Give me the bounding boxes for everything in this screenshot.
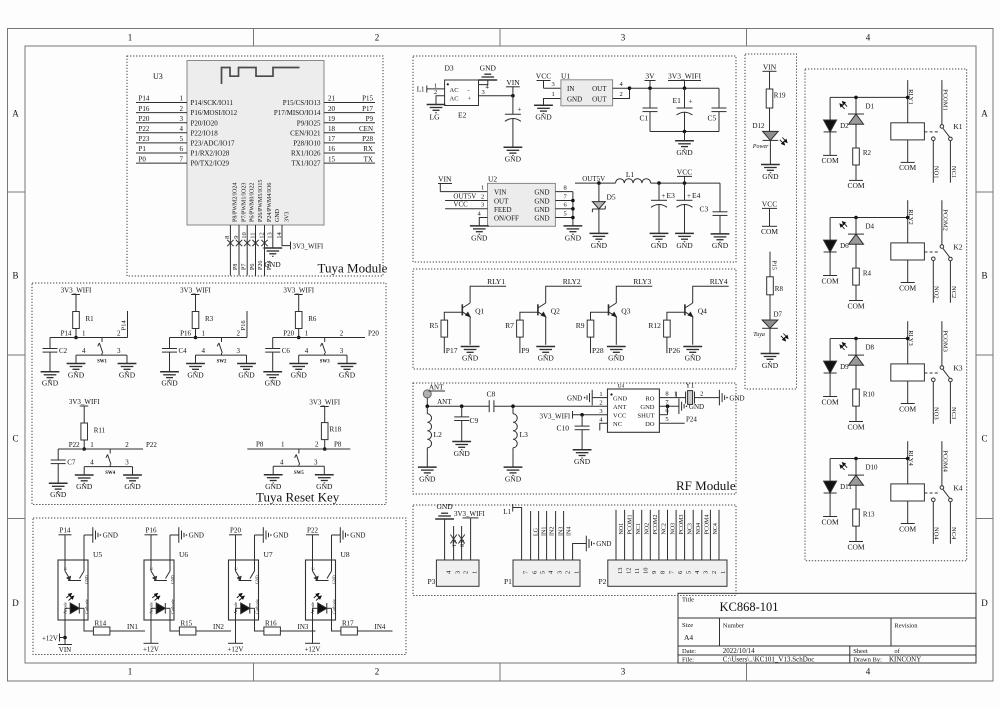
- svg-text:GND: GND: [567, 394, 582, 402]
- svg-text:NC2: NC2: [662, 523, 668, 534]
- svg-text:GND: GND: [462, 354, 479, 363]
- svg-text:NO3: NO3: [933, 407, 940, 420]
- resistor R5: [441, 320, 448, 337]
- relay coil K4: [891, 484, 925, 501]
- svg-text:D10: D10: [866, 464, 879, 472]
- svg-text:R18: R18: [330, 426, 342, 434]
- svg-text:U3: U3: [153, 72, 163, 81]
- svg-text:P16: P16: [146, 527, 157, 535]
- svg-text:GND: GND: [187, 371, 204, 380]
- svg-text:GND: GND: [613, 395, 627, 402]
- wire R11 to node P22: [83, 440, 85, 449]
- ground E4: [675, 233, 694, 241]
- svg-text:Y1: Y1: [685, 381, 694, 390]
- wire U5 cathode to R14: [84, 620, 93, 631]
- Tuya Reset Key section dashed box: [32, 283, 386, 505]
- net label COM under coil K4: [901, 523, 915, 525]
- svg-text:OUT: OUT: [494, 197, 509, 205]
- wire collector of Q2 to RLY2: [546, 286, 582, 303]
- wire U7 anode to +12V: [235, 620, 237, 643]
- net label VIN: [58, 644, 72, 646]
- svg-text:P14: P14: [139, 95, 150, 103]
- U7 LED light arrows: [237, 594, 244, 601]
- svg-text:ANT: ANT: [613, 404, 626, 411]
- svg-text:P1/RX2/IO28: P1/RX2/IO28: [191, 150, 230, 158]
- switch K2 common contact: [940, 245, 944, 249]
- wire SW4 bottom contacts: [84, 466, 132, 468]
- svg-text:1: 1: [128, 33, 133, 43]
- svg-text:GND: GND: [255, 575, 260, 584]
- wire U3 left pin 3 net P20: [136, 122, 187, 124]
- wire U3 left pin 5 net P23: [136, 142, 187, 144]
- ground 3V rail: [675, 141, 694, 149]
- crystal Y1: [686, 391, 695, 405]
- wire P1 pin4 net IN2: [546, 511, 548, 560]
- svg-text:NC4: NC4: [950, 527, 957, 540]
- net label COM below VCC: [762, 225, 777, 227]
- junction D1 rail: [854, 96, 858, 100]
- wire rail to C9: [461, 406, 463, 417]
- U2 right pin numbers 8 7 6 5: [564, 184, 568, 217]
- svg-text:+12V: +12V: [42, 634, 58, 642]
- svg-text:GND: GND: [275, 208, 281, 222]
- svg-text:PCOM2: PCOM2: [653, 514, 659, 534]
- wire rail to diode D9: [829, 339, 831, 362]
- svg-text:C: C: [981, 434, 987, 444]
- svg-text:SW4: SW4: [105, 471, 115, 476]
- svg-text:GND: GND: [591, 241, 608, 250]
- junction E1: [683, 86, 687, 90]
- svg-text:P14: P14: [121, 320, 128, 331]
- wire P3 pin4 to GND: [444, 519, 446, 560]
- wire D11 to COM: [829, 493, 831, 516]
- svg-text:GND: GND: [291, 371, 308, 380]
- svg-text:E1: E1: [673, 96, 682, 105]
- svg-text:L3: L3: [520, 430, 529, 439]
- wire D6 to COM: [829, 252, 831, 275]
- svg-text:KINCONY: KINCONY: [889, 656, 921, 664]
- wire R19 to D12: [769, 108, 771, 131]
- svg-text:P20: P20: [368, 330, 379, 338]
- connector P2 body: [608, 560, 727, 586]
- U1 pin names: [567, 85, 607, 103]
- optocoupler U6 body: [144, 560, 174, 620]
- svg-text:IN: IN: [567, 85, 574, 93]
- svg-text:Number: Number: [723, 623, 745, 630]
- svg-text:OUT5V: OUT5V: [453, 192, 476, 200]
- svg-text:P23/ADC/IO17: P23/ADC/IO17: [191, 140, 235, 148]
- ground C3: [711, 234, 730, 242]
- svg-text:+: +: [468, 96, 472, 103]
- svg-text:2: 2: [375, 667, 380, 677]
- wire node to capacitor C4: [169, 338, 171, 349]
- svg-text:GND: GND: [189, 532, 204, 540]
- wire U3 right pin 15 net TX: [324, 162, 375, 164]
- svg-text:U6: U6: [179, 550, 188, 559]
- capacitor C1: [643, 108, 658, 112]
- svg-text:R5: R5: [430, 321, 439, 330]
- wire rail to L3: [512, 406, 514, 414]
- svg-text:P6: P6: [250, 264, 256, 270]
- power port GND at P3: [435, 513, 454, 519]
- switch K4 common contact: [940, 486, 944, 490]
- wire P2 pin 4: [692, 510, 694, 560]
- svg-text:L1: L1: [626, 170, 635, 179]
- svg-text:-: -: [468, 87, 470, 94]
- wire U3 right pin 16 net RX: [324, 152, 375, 154]
- svg-text:Tuya: Tuya: [753, 332, 765, 338]
- svg-text:P26/PWM5/IO15: P26/PWM5/IO15: [258, 180, 264, 222]
- svg-text:R11: R11: [94, 427, 106, 435]
- svg-text:COM: COM: [822, 276, 839, 285]
- svg-text:RF Module: RF Module: [676, 478, 736, 493]
- wire U8 top-right pin to GND: [332, 535, 341, 560]
- svg-text:Sheet: Sheet: [853, 648, 868, 655]
- junction coil K2 rail: [906, 216, 910, 220]
- ground SW1 pin3: [118, 364, 137, 372]
- wire R15 to IN2: [196, 630, 231, 632]
- wire U6 anode to +12V: [150, 620, 152, 643]
- svg-text:GND: GND: [534, 189, 549, 197]
- dashed actuator link K2: [924, 251, 940, 253]
- svg-text:GND: GND: [50, 490, 67, 499]
- switch SW3 blade: [320, 338, 325, 356]
- svg-text:3V3_WIFI: 3V3_WIFI: [293, 242, 324, 250]
- svg-text:P20/IO20: P20/IO20: [191, 119, 219, 127]
- svg-text:Tuya Module: Tuya Module: [318, 261, 388, 276]
- net label COM under D9: [823, 396, 837, 398]
- svg-text:P16: P16: [139, 105, 150, 113]
- svg-text:GND: GND: [574, 457, 591, 466]
- svg-text:GND: GND: [238, 371, 255, 380]
- wire 3V rail: [630, 87, 720, 89]
- svg-text:R1: R1: [86, 315, 95, 323]
- svg-text:3: 3: [237, 347, 241, 355]
- svg-text:P8: P8: [334, 441, 342, 449]
- LED D1: [848, 114, 864, 124]
- transistor Q2: [538, 303, 546, 345]
- svg-text:3: 3: [556, 571, 563, 574]
- svg-text:PCOM1: PCOM1: [627, 514, 633, 534]
- svg-text:1: 1: [720, 571, 727, 574]
- regulator U1 body: [561, 80, 613, 106]
- wire Y1 pin1 tick: [675, 392, 677, 398]
- svg-text:NC1: NC1: [950, 166, 957, 178]
- wire U4 pin5 to P24: [659, 422, 684, 424]
- dashed actuator link K3: [924, 372, 940, 374]
- D10 light arrows: [840, 463, 847, 470]
- wire D3 pin2 to LG ground: [436, 96, 445, 105]
- antenna ANT terminal: [423, 390, 431, 398]
- switch K1 NO contact: [932, 137, 936, 141]
- power port +12V at U6: [144, 642, 159, 644]
- power port GND at U4 pin7: [679, 398, 684, 414]
- wire VCC to U1 pin3: [544, 87, 561, 89]
- wire net VCC to U2 pin3: [445, 208, 487, 210]
- junction VIN node: [511, 94, 515, 98]
- svg-text:3V3_WIFI: 3V3_WIFI: [454, 510, 485, 518]
- svg-text:4: 4: [305, 347, 309, 355]
- resistor R2: [853, 148, 860, 165]
- wire R4 to COM: [855, 285, 857, 300]
- capacitor E1: [677, 108, 693, 115]
- svg-text:NO2: NO2: [645, 523, 651, 535]
- wire P2 pin 5: [684, 510, 686, 560]
- transistor Q4: [685, 303, 693, 345]
- svg-text:P17/MISO/IO14: P17/MISO/IO14: [274, 109, 321, 117]
- wire 3V3_WIFI to R6: [298, 295, 300, 312]
- ground C6: [263, 372, 282, 380]
- wire P2 pin 10: [641, 510, 643, 560]
- svg-text:P8: P8: [233, 264, 239, 270]
- svg-text:U8: U8: [341, 550, 350, 559]
- wire D8 to R10: [855, 365, 857, 389]
- wire U3 bottom pin 8 net P8: [229, 225, 231, 276]
- svg-text:1: 1: [305, 330, 309, 338]
- switch SW2 blade: [217, 338, 222, 356]
- ground C4: [160, 372, 179, 380]
- wire R16 to IN3: [280, 630, 315, 632]
- wire P22 to U8 pin top-left: [312, 535, 314, 560]
- svg-text:RLY2: RLY2: [563, 277, 581, 286]
- wire bottom rail to ground: [684, 132, 686, 141]
- wire C10 to ground: [581, 430, 583, 450]
- svg-text:GND: GND: [273, 532, 288, 540]
- wire SW4 pin3 to ground: [132, 467, 134, 475]
- svg-text:2: 2: [125, 441, 129, 449]
- bridge rectifier D3 body: [445, 80, 479, 106]
- title block frame: [678, 593, 976, 663]
- wire P2 pin 6: [675, 510, 677, 560]
- wire SW1 bottom contacts: [76, 354, 127, 356]
- wire U5 anode to +12V junction: [64, 620, 66, 644]
- svg-text:K2: K2: [953, 242, 962, 251]
- svg-text:VCC: VCC: [677, 167, 692, 176]
- svg-text:2: 2: [462, 571, 469, 574]
- diode D6: [824, 240, 837, 252]
- wire riser to rotated label P16: [246, 311, 248, 338]
- tuya module U3 body: [187, 61, 324, 226]
- svg-text:3V3_WIFI: 3V3_WIFI: [180, 287, 211, 295]
- svg-text:OUT5V: OUT5V: [582, 175, 605, 183]
- P3 pin numbers: [445, 570, 478, 574]
- U8 LED light arrows: [314, 594, 321, 601]
- svg-text:SHUT: SHUT: [638, 412, 655, 419]
- wire P2 pin 1: [718, 510, 720, 560]
- wire C7 to ground: [57, 464, 59, 484]
- U5 phototransistor: [65, 560, 84, 581]
- wire Y1 pin2 to GND port: [695, 397, 720, 399]
- net label COM under coil K3: [901, 403, 915, 405]
- svg-text:C: C: [12, 434, 18, 444]
- svg-text:D: D: [981, 598, 988, 608]
- power port GND at P1: [586, 536, 591, 552]
- power port +12V at U8: [305, 642, 320, 644]
- svg-text:GND: GND: [505, 155, 522, 164]
- resistor R9: [587, 320, 594, 337]
- svg-text:GND: GND: [534, 215, 549, 223]
- junction L3: [511, 404, 515, 408]
- svg-text:3: 3: [621, 33, 626, 43]
- wire 3V3_WIFI to R3: [195, 295, 197, 312]
- ground C2: [41, 372, 60, 380]
- svg-text:E3: E3: [667, 191, 676, 200]
- svg-text:SW3: SW3: [320, 360, 330, 365]
- svg-text:R17: R17: [342, 620, 354, 628]
- svg-text:R13: R13: [863, 510, 875, 518]
- svg-text:Q2: Q2: [551, 307, 560, 316]
- svg-text:10: 10: [643, 568, 650, 575]
- D3 AC- labels: [450, 87, 472, 103]
- wire U3 right pin 18 net CEN: [324, 132, 375, 134]
- svg-text:RX: RX: [363, 145, 373, 153]
- svg-text:20: 20: [328, 105, 336, 113]
- svg-text:Anode: Anode: [233, 602, 238, 614]
- svg-text:18: 18: [328, 125, 336, 133]
- svg-text:LG: LG: [430, 113, 441, 122]
- svg-text:C5: C5: [708, 114, 717, 123]
- wire C1 to bottom rail: [649, 112, 651, 132]
- svg-text:L2: L2: [434, 430, 443, 439]
- switch K3 NO contact: [932, 378, 936, 382]
- svg-text:File:: File:: [682, 657, 694, 664]
- svg-text:C:\Users\..\KC101_V13.SchDoc: C:\Users\..\KC101_V13.SchDoc: [723, 656, 815, 664]
- ground emitter of Q4: [683, 347, 702, 355]
- svg-text:A4: A4: [684, 633, 693, 642]
- transistor Q1: [462, 303, 470, 345]
- svg-text:3V3_WIFI: 3V3_WIFI: [283, 287, 314, 295]
- svg-text:P16: P16: [240, 320, 247, 331]
- D3 pin1 dot: [447, 83, 449, 85]
- svg-text:4: 4: [866, 33, 871, 43]
- svg-text:D8: D8: [866, 344, 875, 352]
- wire rail to LED D1: [855, 97, 857, 114]
- junction C9: [460, 404, 464, 408]
- svg-text:GND: GND: [712, 241, 729, 250]
- net label COM under D11: [823, 516, 837, 518]
- switch K1 NC contact: [949, 137, 953, 141]
- junction coil K1 rail: [906, 96, 910, 100]
- svg-text:P26: P26: [258, 261, 264, 270]
- svg-text:3V3_WIFI: 3V3_WIFI: [668, 72, 701, 81]
- svg-text:NO3: NO3: [670, 523, 676, 535]
- wire SW4 pin4 to ground: [83, 467, 85, 475]
- svg-text:VIN: VIN: [506, 78, 520, 87]
- svg-text:P14: P14: [61, 330, 72, 338]
- resistor R3: [192, 312, 199, 329]
- svg-text:D3: D3: [445, 64, 454, 73]
- wire L1 to D3 pin1: [427, 88, 445, 90]
- ground SW2 pin3: [237, 364, 256, 372]
- wire node P22 horizontal: [58, 448, 143, 450]
- svg-text:17: 17: [328, 135, 336, 143]
- junction coil K3 rail: [906, 337, 910, 341]
- wire base of Q4 to R12: [667, 312, 685, 320]
- svg-text:Power: Power: [752, 144, 769, 150]
- power port GND at Y1: [719, 390, 724, 406]
- svg-text:NC2: NC2: [950, 286, 957, 298]
- svg-text:PCOM2: PCOM2: [941, 209, 948, 231]
- wire U4 pin4 no connect: [600, 423, 608, 430]
- wire NO1: [932, 141, 934, 183]
- D12 light arrows: [780, 138, 787, 145]
- svg-text:C10: C10: [557, 423, 570, 432]
- svg-text:P20: P20: [283, 330, 294, 338]
- svg-text:R4: R4: [863, 269, 872, 277]
- switch K3 blade: [943, 369, 950, 378]
- U2 pin names: [494, 189, 550, 223]
- switch K1 blade: [943, 128, 950, 137]
- svg-text:9: 9: [651, 571, 658, 574]
- wire E1 to bottom rail: [684, 112, 686, 132]
- svg-text:C1: C1: [640, 114, 649, 123]
- wire P1 pin5 net IN1: [538, 511, 540, 560]
- wire U3 right pin 21 net P15: [324, 102, 375, 104]
- svg-text:P22/IO18: P22/IO18: [191, 129, 219, 137]
- wire P1 pin3 net IN3: [555, 511, 557, 560]
- input optocoupler section dashed box: [33, 518, 406, 655]
- wire ANT to rail: [426, 398, 428, 406]
- svg-text:C: C: [63, 567, 68, 570]
- resistor R17: [341, 627, 358, 635]
- switch K3 common contact: [940, 366, 944, 370]
- svg-text:P16/MOSI/IO12: P16/MOSI/IO12: [191, 109, 238, 117]
- wire U6 cathode to R15: [170, 620, 179, 631]
- wire P16 to U6 pin top-left: [150, 535, 152, 560]
- svg-text:U5: U5: [93, 550, 102, 559]
- wire C3 to ground: [719, 215, 721, 234]
- svg-text:P6/PWM0/IO22: P6/PWM0/IO22: [250, 183, 256, 222]
- wire D2 to COM: [829, 132, 831, 155]
- wire R6 to node P20: [298, 329, 300, 338]
- wire R10 to COM: [855, 406, 857, 421]
- wire D7 to ground: [769, 328, 771, 353]
- wire rail corner to C3: [719, 183, 721, 212]
- wire P2 pin 3: [701, 510, 703, 560]
- svg-text:4: 4: [866, 667, 871, 677]
- wire 3V3_WIFI to R11: [83, 406, 85, 423]
- svg-text:Cathode: Cathode: [170, 599, 175, 614]
- capacitor C2: [43, 349, 58, 353]
- svg-text:P22: P22: [69, 441, 80, 449]
- svg-text:P28: P28: [592, 346, 604, 355]
- svg-text:IN3: IN3: [298, 623, 309, 631]
- svg-text:GND: GND: [332, 575, 337, 584]
- no-connect X on pin 10: [244, 240, 250, 246]
- power port GND at U8: [340, 527, 345, 543]
- switch K4 NO contact: [932, 498, 936, 502]
- svg-text:COM: COM: [899, 163, 916, 172]
- wire C5 to bottom rail: [718, 112, 720, 132]
- wire U2 GND bus: [572, 192, 574, 226]
- svg-text:GND: GND: [534, 206, 549, 214]
- junction bottom rail: [683, 130, 687, 134]
- wire U8 anode to +12V: [312, 620, 314, 643]
- svg-text:R8: R8: [775, 285, 784, 293]
- resistor R10: [853, 389, 860, 406]
- resistor R11: [81, 423, 88, 440]
- resistor R7: [517, 320, 524, 337]
- svg-text:3V3_WIFI: 3V3_WIFI: [309, 399, 340, 407]
- svg-text:E4: E4: [692, 191, 701, 200]
- svg-text:Cathode: Cathode: [255, 599, 260, 614]
- svg-text:TX: TX: [364, 155, 373, 163]
- wire P2 pin 11: [632, 510, 634, 560]
- svg-text:IN2: IN2: [213, 623, 224, 631]
- wire base of Q2 to R7: [520, 312, 538, 320]
- svg-text:GND: GND: [76, 482, 93, 491]
- wire U3 left pin 2 net P16: [136, 112, 187, 114]
